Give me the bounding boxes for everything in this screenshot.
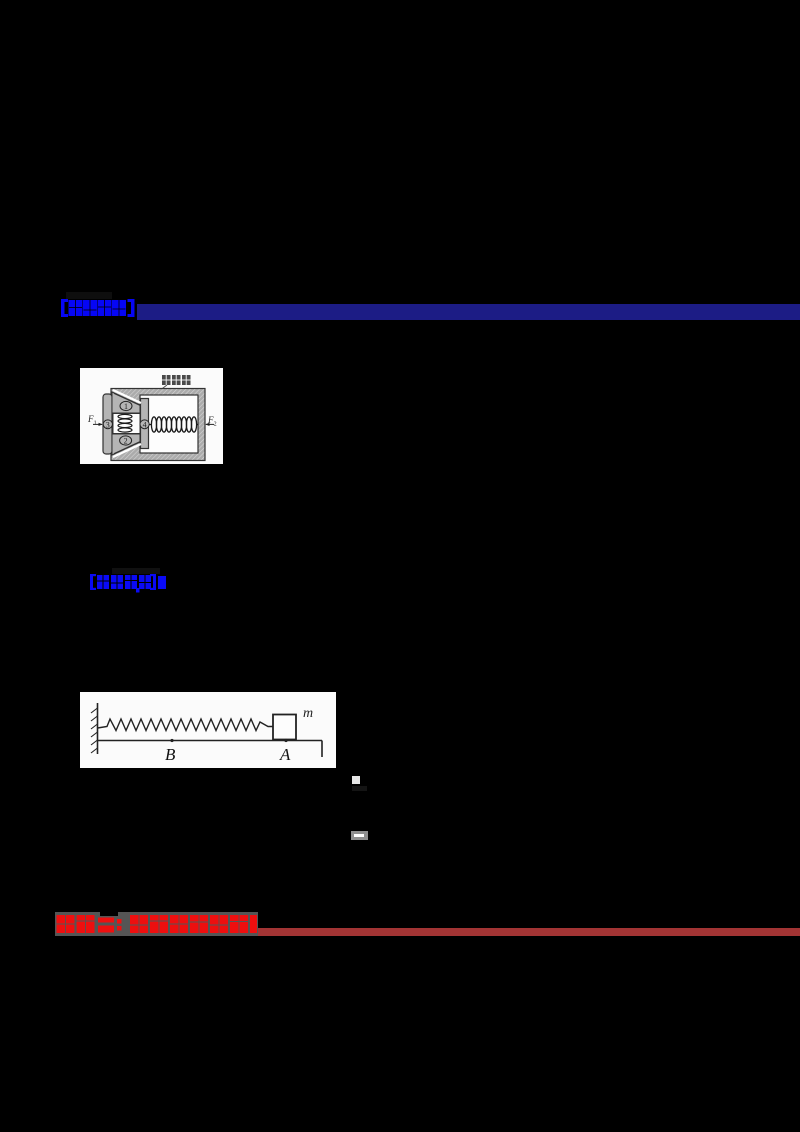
svg-text:1: 1 — [124, 402, 128, 411]
svg-text:B: B — [165, 745, 176, 764]
svg-text:4: 4 — [143, 420, 147, 429]
svg-text:3: 3 — [106, 420, 110, 429]
svg-text:1: 1 — [94, 421, 97, 427]
svg-text:2: 2 — [124, 437, 128, 446]
svg-text:m: m — [303, 706, 313, 721]
svg-text:A: A — [279, 745, 291, 764]
svg-text:2: 2 — [214, 422, 217, 428]
